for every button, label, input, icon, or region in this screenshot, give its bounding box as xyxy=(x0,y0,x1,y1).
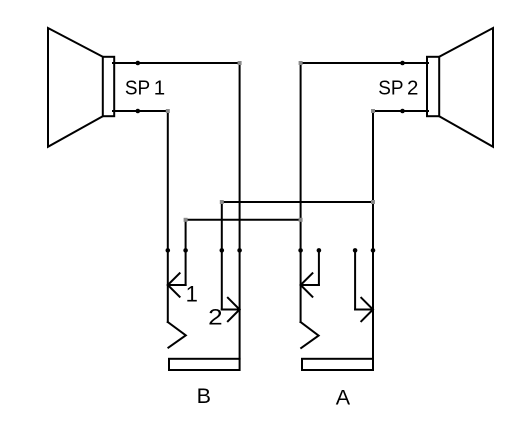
arrow A contact 1 xyxy=(301,273,313,296)
junction dot B pin1 xyxy=(166,248,171,253)
junction dot SP1 top pin xyxy=(136,61,141,66)
svg-text:SP: SP xyxy=(125,76,150,99)
wire A contact 2 tail xyxy=(355,309,373,311)
plug A body rectangle xyxy=(302,359,373,370)
wire horizontal upper cross (B pin3 to A pin4) xyxy=(222,201,373,203)
wire vertical B pin2 xyxy=(185,220,187,285)
grip upper cross right end xyxy=(371,200,375,204)
wire vertical A pin2 xyxy=(318,250,320,285)
junction dot SP1 bottom pin xyxy=(136,109,141,114)
junction dot B pin2 xyxy=(183,248,188,253)
grip SP1 bottom corner xyxy=(166,109,170,113)
arrow A contact 2 xyxy=(361,298,373,321)
svg-text:1: 1 xyxy=(154,76,165,99)
wire SP2 bottom pin to corner xyxy=(373,110,428,112)
plug B body rectangle xyxy=(169,359,240,370)
svg-text:1: 1 xyxy=(186,281,198,306)
speaker SP2 driver rectangle xyxy=(427,57,439,116)
wire vertical B pin3 xyxy=(221,202,223,310)
grip SP1 top corner xyxy=(238,61,242,65)
zigzag sleeve contact plug B xyxy=(168,322,186,348)
svg-text:A: A xyxy=(336,386,351,410)
wire horizontal lower cross (B pin2 to A pin1) xyxy=(186,219,301,221)
junction dot B pin3 xyxy=(220,248,225,253)
junction dot SP2 bottom pin xyxy=(400,109,405,114)
junction dot SP2 top pin xyxy=(400,61,405,66)
grip lower cross right end xyxy=(299,218,303,222)
wire vertical A pin3 xyxy=(354,250,356,309)
wire vertical B pin4 xyxy=(239,63,241,359)
svg-text:B: B xyxy=(197,384,211,408)
junction dot A pin4 xyxy=(371,248,376,253)
speaker SP1 cone xyxy=(48,28,103,147)
grip SP2 bottom corner xyxy=(371,109,375,113)
junction dot A pin1 xyxy=(298,248,303,253)
wire A contact 1 tail xyxy=(301,284,319,286)
wire B contact 1 tail xyxy=(168,284,186,286)
grip upper cross left end xyxy=(220,200,224,204)
junction dot A pin2 xyxy=(317,248,322,253)
wire vertical A pin4 xyxy=(372,111,374,359)
arrow B contact 1 xyxy=(168,273,180,296)
wire SP1 top pin to corner xyxy=(113,62,240,64)
junction dot A pin3 xyxy=(353,248,358,253)
svg-text:2: 2 xyxy=(208,305,223,330)
speaker SP2 cone xyxy=(439,28,493,147)
wire B contact 2 tail xyxy=(222,309,240,311)
svg-text:2: 2 xyxy=(407,76,418,99)
wire SP1 bottom pin to corner xyxy=(113,110,168,112)
grip lower cross left end xyxy=(184,218,188,222)
grip SP2 top corner xyxy=(299,61,303,65)
wire SP2 top pin to corner xyxy=(301,62,428,64)
wire vertical A pin1 xyxy=(300,63,302,322)
svg-text:SP: SP xyxy=(378,76,403,99)
arrow B contact 2 xyxy=(228,298,240,321)
wire vertical B pin1 xyxy=(167,111,169,322)
junction dot B pin4 xyxy=(237,248,242,253)
speaker SP1 driver rectangle xyxy=(103,57,114,116)
zigzag sleeve contact plug A xyxy=(301,322,319,348)
